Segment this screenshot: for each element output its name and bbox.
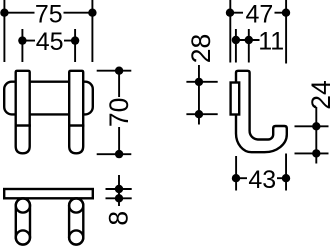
dim 45 extension line left: [21, 29, 23, 62]
side view: hook body: [236, 71, 287, 152]
svg-text:47: 47: [245, 0, 273, 28]
dim 70 dot top: [115, 67, 123, 75]
dim 75 line: [4, 12, 92, 14]
dim 45 dot left: [18, 36, 26, 44]
dim 75 extension line right: [91, 0, 93, 62]
svg-text:28: 28: [186, 34, 216, 63]
dim 24 line: [315, 107, 317, 164]
svg-text:11: 11: [258, 28, 284, 56]
dim 70 dot bottom: [115, 150, 123, 158]
dim 43 line: [236, 177, 286, 179]
dim 11 extension line right: [248, 29, 250, 63]
dim 11 dot left: [232, 36, 240, 44]
plan view: left capsule: [16, 198, 30, 244]
dim 45 extension line right: [74, 29, 76, 62]
dim 11 dot right: [245, 36, 253, 44]
svg-text:75: 75: [35, 0, 63, 28]
svg-text:70: 70: [104, 98, 134, 127]
dim 11 line: [236, 39, 260, 41]
front view: right post: [69, 71, 83, 126]
dim 47 line: [230, 12, 286, 14]
dim 45 dot right: [71, 36, 79, 44]
dim 43 extension line right: [285, 154, 287, 191]
dim 47 extension line right: [285, 0, 287, 64]
dim 70 extension line bottom: [97, 153, 132, 155]
plan view: left top circle: [16, 198, 30, 212]
dim 43 extension line left: [235, 156, 237, 191]
dim 75 dot right: [88, 9, 96, 17]
dim 28 dot bottom: [195, 110, 203, 118]
dim 8 extension line top: [106, 188, 132, 190]
svg-text:8: 8: [104, 211, 134, 226]
plan view: right top circle: [69, 198, 83, 212]
dim 47 dot right: [282, 9, 290, 17]
dim 45 line: [22, 40, 75, 42]
dim 8 extension line bottom: [106, 197, 132, 199]
dim 28 line: [198, 65, 200, 125]
svg-text:24: 24: [306, 80, 330, 109]
dim 24 dot top: [312, 122, 320, 130]
dim 11 extension line left: [235, 29, 237, 63]
dim 8 dot bottom: [115, 194, 123, 202]
side view: wall plate: [231, 83, 240, 115]
dim 24 extension line top: [295, 125, 329, 127]
front view: left hook rod: [16, 126, 30, 154]
dim 70 line: [118, 71, 120, 154]
dim 28 extension line bottom: [186, 113, 217, 115]
dim 8 dot top: [115, 185, 123, 193]
dim 70 extension line top: [97, 70, 132, 72]
dim 8 line: [118, 175, 120, 206]
svg-text:45: 45: [36, 28, 64, 56]
svg-text:43: 43: [248, 166, 276, 194]
dim 24 dot bottom: [312, 149, 320, 157]
dim 47 dot left: [226, 9, 234, 17]
plan view: bar: [4, 189, 93, 198]
front view: mounting bar: [4, 82, 93, 115]
dim 28 extension line top: [186, 81, 217, 83]
dim 75 extension line left: [3, 0, 5, 62]
plan view: right capsule: [69, 198, 83, 244]
dim 28 dot top: [195, 78, 203, 86]
plan view: left bottom circle: [16, 230, 30, 244]
plan view: right bottom circle: [69, 230, 83, 244]
dim 43 dot right: [282, 174, 290, 182]
dim 47 extension line left: [229, 0, 231, 63]
front view: right hook rod: [69, 126, 83, 154]
dim 24 extension line bottom: [295, 152, 329, 154]
dim 43 dot left: [232, 174, 240, 182]
front view: left post: [16, 71, 30, 126]
dim 75 dot left: [0, 9, 8, 17]
